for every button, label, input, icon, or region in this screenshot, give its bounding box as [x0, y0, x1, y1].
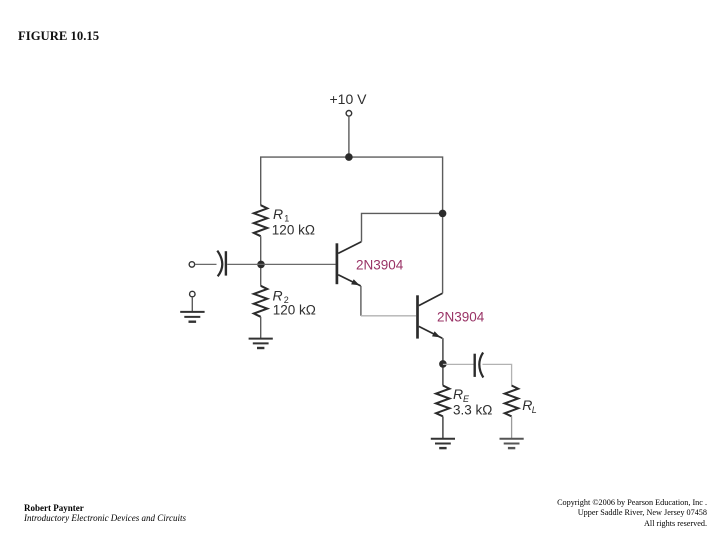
resistor R1 [254, 205, 267, 236]
wire junction to output capacitor [443, 363, 474, 365]
svg-text:R: R [273, 288, 283, 304]
node VCC terminal [346, 111, 352, 117]
label R1 [273, 206, 289, 223]
wire Q1 emitter down [360, 286, 362, 316]
ground RL [500, 439, 524, 448]
node supply junction [345, 153, 353, 161]
resistor RL [505, 386, 519, 417]
node signal ground terminal [190, 291, 196, 297]
wire supply stub [348, 117, 350, 158]
label RE [453, 386, 470, 404]
svg-text:2N3904: 2N3904 [356, 258, 404, 273]
svg-text:R: R [273, 206, 283, 222]
node base junction [257, 261, 265, 269]
wire input to capacitor [195, 263, 217, 265]
svg-text:120 kΩ: 120 kΩ [272, 223, 315, 238]
wire Q2 collector [442, 217, 444, 293]
capacitor C1 [217, 251, 226, 277]
transistor Q1 [337, 242, 361, 286]
node collector junction [439, 210, 447, 218]
label R2 [273, 288, 289, 305]
ground input [180, 312, 204, 322]
svg-text:L: L [532, 405, 537, 415]
svg-text:+10 V: +10 V [330, 91, 368, 107]
node emitter junction [439, 360, 447, 368]
resistor RE [436, 386, 450, 417]
wire capacitor to base [227, 263, 336, 265]
node input terminal [189, 262, 195, 268]
wire R1 bottom to R2 top [260, 236, 262, 286]
capacitor C2 [475, 353, 484, 378]
label RL [522, 397, 537, 415]
ground RE [431, 439, 455, 448]
wire capacitor to RL [483, 364, 512, 385]
ground R2 [249, 339, 273, 348]
wire Q2 emitter down [442, 338, 444, 385]
svg-text:120 kΩ: 120 kΩ [273, 302, 316, 317]
resistor R2 [254, 286, 267, 317]
wire terminal to ground [191, 297, 193, 312]
svg-text:2N3904: 2N3904 [437, 309, 485, 324]
wire Q1 collector [362, 213, 443, 241]
transistor Q2 [418, 293, 443, 338]
svg-text:R: R [453, 386, 463, 402]
wire top rail [261, 157, 443, 213]
svg-text:3.3 kΩ: 3.3 kΩ [453, 402, 492, 417]
wire R2 to ground [260, 317, 262, 339]
wire RL to ground [511, 416, 513, 438]
wire RE to ground [442, 416, 444, 438]
wire emitter to Q2 base [361, 315, 416, 317]
